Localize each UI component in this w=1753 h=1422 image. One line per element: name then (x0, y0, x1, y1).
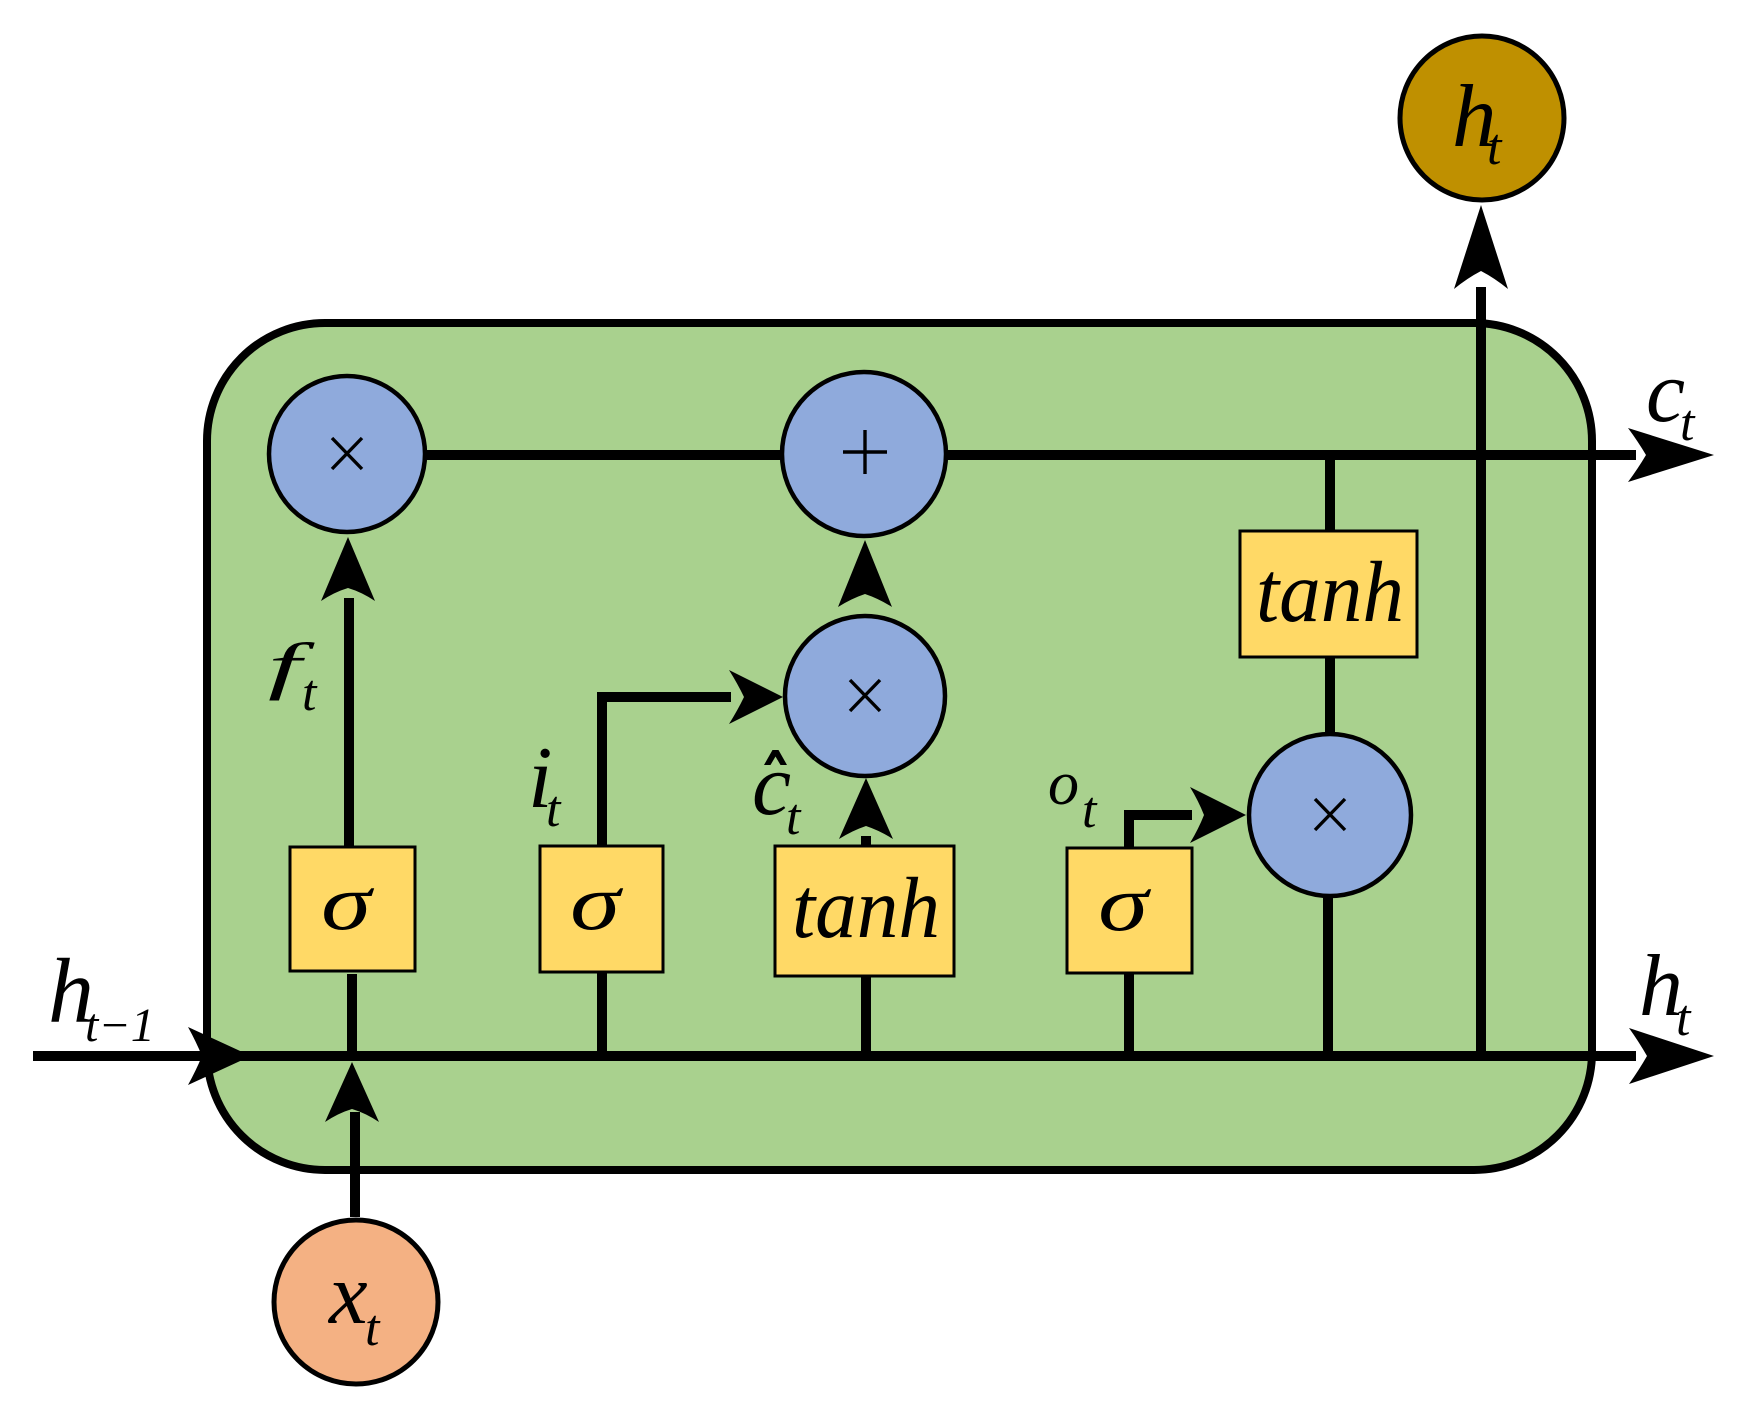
svg-text:tanh: tanh (792, 859, 940, 956)
svg-text:σ: σ (321, 858, 374, 946)
svg-text:t: t (546, 781, 562, 838)
svg-text:σ: σ (1098, 859, 1151, 947)
svg-text:t: t (1680, 395, 1696, 452)
svg-text:o: o (1048, 750, 1079, 818)
svg-text:t: t (1487, 119, 1503, 176)
svg-text:t: t (365, 1300, 381, 1357)
svg-text:t−1: t−1 (85, 999, 155, 1052)
svg-text:σ: σ (570, 858, 623, 946)
svg-text:t: t (1082, 782, 1098, 839)
svg-text:x: x (327, 1245, 368, 1342)
svg-text:t: t (786, 789, 802, 846)
svg-text:tanh: tanh (1256, 543, 1404, 640)
svg-text:t: t (1676, 990, 1692, 1047)
svg-text:t: t (302, 665, 318, 722)
